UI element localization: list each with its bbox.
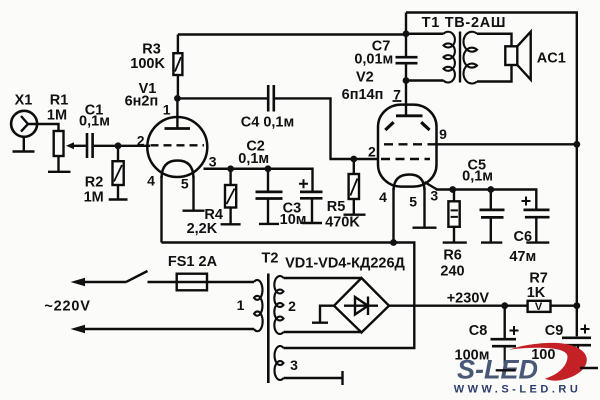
svg-text:2,2K: 2,2K xyxy=(187,221,218,237)
svg-text:9: 9 xyxy=(439,126,447,142)
svg-text:5: 5 xyxy=(181,175,189,191)
svg-text:3: 3 xyxy=(430,187,438,203)
svg-text:X1: X1 xyxy=(15,93,33,109)
svg-text:V: V xyxy=(535,301,543,313)
svg-text:5: 5 xyxy=(409,193,417,209)
svg-text:6п14п: 6п14п xyxy=(342,87,384,103)
svg-text:+230V: +230V xyxy=(447,290,490,306)
svg-text:4: 4 xyxy=(147,172,155,188)
svg-text:4: 4 xyxy=(379,189,387,205)
svg-text:1M: 1M xyxy=(47,108,67,124)
svg-text:C9: C9 xyxy=(545,323,564,339)
svg-text:T2: T2 xyxy=(262,250,279,266)
svg-text:240: 240 xyxy=(440,263,464,279)
svg-text:R6: R6 xyxy=(443,248,462,264)
svg-text:FS1 2A: FS1 2A xyxy=(168,254,218,270)
svg-text:3: 3 xyxy=(209,153,217,169)
svg-text:R2: R2 xyxy=(85,175,104,191)
svg-text:WWW.S-LED.RU: WWW.S-LED.RU xyxy=(454,384,582,396)
svg-text:47м: 47м xyxy=(509,249,536,265)
svg-text:6н2п: 6н2п xyxy=(125,93,159,109)
svg-text:3: 3 xyxy=(290,357,298,373)
svg-text:C4 0,1м: C4 0,1м xyxy=(241,115,294,131)
svg-text:V2: V2 xyxy=(356,69,374,85)
svg-text:R1: R1 xyxy=(50,93,69,109)
svg-text:C6: C6 xyxy=(514,229,533,245)
svg-text:1: 1 xyxy=(237,297,245,313)
svg-text:AC1: AC1 xyxy=(537,51,566,67)
svg-text:~220V: ~220V xyxy=(44,299,90,315)
svg-text:2: 2 xyxy=(368,143,376,159)
svg-text:1K: 1K xyxy=(527,285,546,301)
svg-text:7: 7 xyxy=(393,86,401,102)
svg-text:T1 ТВ-2АШ: T1 ТВ-2АШ xyxy=(422,15,507,31)
svg-text:0,1м: 0,1м xyxy=(462,169,493,185)
svg-text:VD1-VD4-КД226Д: VD1-VD4-КД226Д xyxy=(285,255,405,271)
svg-text:0,01м: 0,01м xyxy=(354,51,393,67)
svg-text:1M: 1M xyxy=(84,190,104,206)
svg-text:0,1м: 0,1м xyxy=(79,114,110,130)
svg-text:2: 2 xyxy=(288,298,296,314)
svg-text:100K: 100K xyxy=(130,56,165,72)
svg-text:470K: 470K xyxy=(325,215,360,231)
svg-text:0,1м: 0,1м xyxy=(238,151,269,167)
svg-text:R5: R5 xyxy=(327,199,346,215)
svg-text:1: 1 xyxy=(163,101,171,117)
svg-text:C8: C8 xyxy=(469,323,488,339)
svg-text:2: 2 xyxy=(137,132,145,148)
svg-text:10м: 10м xyxy=(280,212,307,228)
